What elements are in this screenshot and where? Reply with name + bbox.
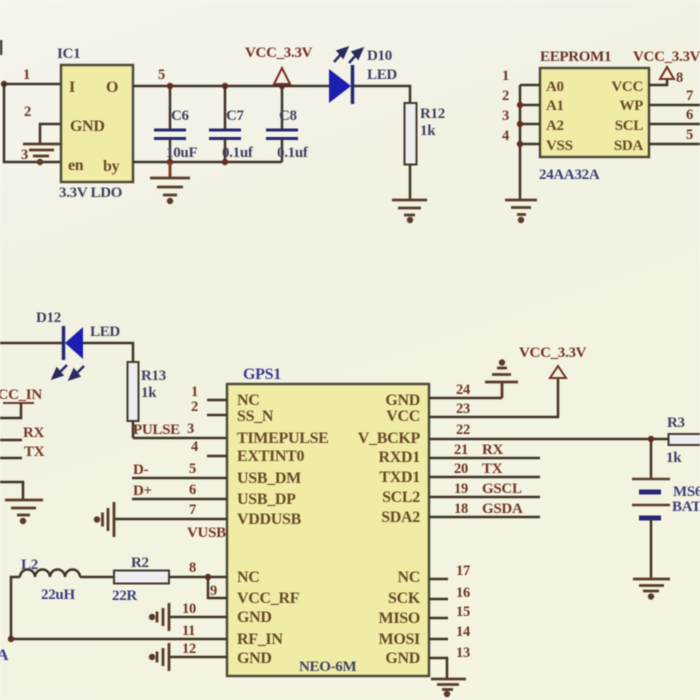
ground below eeprom <box>505 200 537 222</box>
svg-text:USB_DP: USB_DP <box>237 491 296 508</box>
wire gps pin7 <box>114 518 227 521</box>
wire gps pin9 loop <box>208 577 227 598</box>
svg-text:MISO: MISO <box>379 610 420 627</box>
svg-text:GND: GND <box>385 392 420 409</box>
svg-text:10uF: 10uF <box>166 145 197 161</box>
svg-text:13: 13 <box>456 645 470 661</box>
svg-text:C8: C8 <box>279 108 297 124</box>
wire LED to R12 <box>354 86 410 103</box>
ground pin13 <box>431 679 466 696</box>
svg-text:en: en <box>68 157 84 174</box>
wire LED D12 to R13 <box>83 343 133 362</box>
wire gps pin19 <box>429 496 540 499</box>
svg-text:R3: R3 <box>667 415 685 431</box>
wire gps pin6 <box>132 498 227 501</box>
eeprom U box <box>540 68 649 157</box>
svg-text:GSCL: GSCL <box>482 481 522 497</box>
wire gps pin1 <box>207 399 227 402</box>
svg-text:6: 6 <box>189 482 196 498</box>
svg-text:IC1: IC1 <box>57 46 80 62</box>
svg-text:GND: GND <box>237 650 272 667</box>
wire gps pin11 RF_IN <box>11 638 227 641</box>
GPS module GPS1 <box>227 366 429 676</box>
svg-text:SCK: SCK <box>388 590 421 607</box>
svg-text:15: 15 <box>456 604 470 620</box>
ground below R12 <box>392 200 427 222</box>
wire eeprom pin8 VCC <box>649 79 667 85</box>
svg-text:LED: LED <box>90 324 120 340</box>
svg-text:C6: C6 <box>171 108 190 124</box>
wire pin1 to IC1 <box>3 83 61 86</box>
wire gps pin18 <box>429 516 540 519</box>
svg-text:A1: A1 <box>546 98 564 114</box>
svg-text:21: 21 <box>454 442 468 458</box>
svg-text:24AA32A: 24AA32A <box>539 167 600 183</box>
svg-text:NEO-6M: NEO-6M <box>299 659 357 675</box>
svg-text:1: 1 <box>502 68 509 84</box>
svg-text:R13: R13 <box>141 368 166 384</box>
svg-text:D10: D10 <box>367 48 392 64</box>
svg-text:GND: GND <box>237 609 272 626</box>
svg-text:V_BCKP: V_BCKP <box>358 430 421 447</box>
svg-text:0.1uf: 0.1uf <box>277 145 309 161</box>
svg-text:SDA2: SDA2 <box>381 509 420 526</box>
wire eeprom left bus <box>519 85 522 200</box>
svg-text:TXD1: TXD1 <box>379 469 420 486</box>
svg-text:1k: 1k <box>141 385 157 401</box>
svg-text:10: 10 <box>182 601 196 617</box>
svg-text:6: 6 <box>686 107 693 123</box>
svg-text:C7: C7 <box>226 108 245 124</box>
capacitor C7 <box>209 86 254 162</box>
svg-text:SCL: SCL <box>615 118 644 134</box>
svg-text:GND: GND <box>70 118 105 135</box>
svg-text:1k: 1k <box>420 123 436 139</box>
capacitor C6 <box>154 86 197 162</box>
svg-text:23: 23 <box>456 401 470 417</box>
svg-text:0.1uf: 0.1uf <box>222 145 254 161</box>
wire gps pin15 <box>429 617 448 620</box>
svg-text:MS62: MS62 <box>673 484 700 500</box>
svg-text:1k: 1k <box>666 450 682 466</box>
ground sideways pin7 <box>95 502 114 537</box>
wire gps pin22 V_BCKP <box>429 438 669 441</box>
svg-text:USB_DM: USB_DM <box>237 470 301 487</box>
LED D12 arrows <box>53 365 84 379</box>
svg-text:RXD1: RXD1 <box>379 449 421 466</box>
resistor R12 <box>405 103 445 165</box>
svg-text:D+: D+ <box>133 483 152 499</box>
node C6 top <box>167 83 173 89</box>
svg-text:BAT1: BAT1 <box>672 499 700 515</box>
wire to left ground <box>0 482 23 500</box>
wire gps pin13 GND <box>429 658 447 679</box>
wire gps pin20 <box>429 476 540 479</box>
wire gps pin17 <box>429 578 448 581</box>
svg-text:TIMEPULSE: TIMEPULSE <box>237 430 329 447</box>
wire gps pin21 <box>429 457 540 460</box>
svg-text:2: 2 <box>191 399 198 415</box>
capacitor C8 <box>266 86 309 162</box>
node C6 bottom <box>167 159 173 165</box>
svg-text:4: 4 <box>191 439 198 455</box>
svg-text:R12: R12 <box>420 106 445 122</box>
svg-text:RX: RX <box>482 442 504 458</box>
svg-text:VCC_3.3V: VCC_3.3V <box>519 345 587 361</box>
svg-text:5: 5 <box>158 67 165 83</box>
ground inverted pin24 <box>485 361 518 398</box>
wire gps pin10 <box>169 616 227 619</box>
svg-text:3: 3 <box>502 108 509 124</box>
svg-text:3: 3 <box>187 421 194 437</box>
svg-text:VCC: VCC <box>386 408 420 425</box>
svg-text:14: 14 <box>456 624 470 640</box>
svg-text:D12: D12 <box>36 310 61 326</box>
svg-text:17: 17 <box>456 563 470 579</box>
svg-text:VSS: VSS <box>546 138 573 154</box>
svg-text:EXTINT0: EXTINT0 <box>237 448 305 465</box>
svg-text:GND: GND <box>385 650 420 667</box>
svg-text:12: 12 <box>182 641 196 657</box>
svg-text:3: 3 <box>21 147 28 163</box>
svg-text:NC: NC <box>397 569 420 586</box>
wire eeprom pin6 SCL <box>649 123 700 126</box>
power VCC_3.3V gps <box>519 345 587 378</box>
svg-text:WP: WP <box>619 98 643 114</box>
svg-text:18: 18 <box>454 501 468 517</box>
svg-text:EEPROM1: EEPROM1 <box>540 49 611 65</box>
svg-text:5: 5 <box>686 127 693 143</box>
wire eeprom pin2 <box>520 104 540 107</box>
battery BT1 <box>632 439 700 579</box>
svg-text:NC: NC <box>237 569 260 586</box>
ground sideways pin10 <box>150 603 169 631</box>
wire gps pin4 <box>207 455 227 458</box>
svg-text:A: A <box>0 647 9 664</box>
svg-text:3.3V LDO: 3.3V LDO <box>59 185 122 201</box>
svg-text:1: 1 <box>191 384 198 400</box>
wire TX stub <box>0 457 22 460</box>
wire pulse to pin3 <box>133 437 227 440</box>
wire eeprom pin4 <box>520 143 540 146</box>
svg-text:PULSE: PULSE <box>133 422 180 438</box>
regulator IC1 <box>57 46 133 201</box>
wire gps pin2 <box>207 414 227 417</box>
wire eeprom pin1 <box>520 84 540 87</box>
wire GND pin hook <box>40 124 61 144</box>
ground sideways pin12 <box>150 643 169 671</box>
svg-text:O: O <box>106 79 118 96</box>
svg-text:L2: L2 <box>21 557 38 573</box>
wire R12 to ground <box>409 165 412 201</box>
wire eeprom pin3 <box>520 123 540 126</box>
svg-text:VCC_3.3V: VCC_3.3V <box>245 45 313 61</box>
ground below battery <box>633 579 670 598</box>
svg-text:11: 11 <box>182 623 195 639</box>
wire R13 to pulse <box>132 421 135 438</box>
svg-text:GPS1: GPS1 <box>243 366 281 383</box>
svg-text:8: 8 <box>189 560 196 576</box>
svg-text:9: 9 <box>210 583 217 599</box>
svg-text:TX: TX <box>24 444 45 460</box>
svg-text:4: 4 <box>502 128 509 144</box>
wire input rail down <box>4 84 61 162</box>
wire gps pin16 <box>429 598 448 601</box>
svg-text:A2: A2 <box>546 118 564 134</box>
svg-text:7: 7 <box>189 502 196 518</box>
wire gps pin14 <box>429 638 448 641</box>
svg-text:VCC_3.3V: VCC_3.3V <box>633 49 700 65</box>
svg-text:VCC: VCC <box>611 79 643 95</box>
svg-text:VUSB: VUSB <box>187 525 226 541</box>
svg-text:VCC_RF: VCC_RF <box>237 590 300 607</box>
svg-text:19: 19 <box>454 481 468 497</box>
power VCC_IN <box>0 387 42 418</box>
svg-text:24: 24 <box>456 382 470 398</box>
node input junction <box>1 81 7 87</box>
svg-text:2: 2 <box>24 104 31 120</box>
node C7 bottom <box>222 159 228 165</box>
svg-text:22uH: 22uH <box>41 587 75 603</box>
power VCC_3.3V top <box>245 45 313 84</box>
svg-text:R2: R2 <box>131 555 149 571</box>
wire gps pin8 <box>186 576 227 579</box>
svg-text:VCC_IN: VCC_IN <box>0 387 42 403</box>
wire bottom rail by-pin <box>133 161 282 164</box>
svg-text:RF_IN: RF_IN <box>237 631 283 648</box>
ground under IC1 GND pin <box>23 144 60 164</box>
node VCC / C8 top <box>279 83 285 89</box>
svg-text:7: 7 <box>686 88 693 104</box>
stray mark left edge <box>0 40 2 55</box>
resistor R2 <box>112 555 169 604</box>
power VCC_3.3V eeprom <box>633 49 700 79</box>
svg-text:D-: D- <box>133 462 149 478</box>
LED D10 <box>329 48 397 104</box>
wire eeprom pin5 SDA <box>649 143 700 146</box>
inductor L2 <box>20 557 80 603</box>
svg-text:I: I <box>69 79 75 96</box>
resistor R13 <box>128 362 166 421</box>
ground left <box>5 500 43 523</box>
svg-text:SDA: SDA <box>614 138 644 154</box>
wire L2 to R2 <box>80 576 114 579</box>
wire gps pin12 <box>169 656 227 659</box>
LED D12 <box>0 310 120 360</box>
LED D10 arrows <box>334 48 362 63</box>
svg-text:22R: 22R <box>112 588 137 604</box>
svg-text:GSDA: GSDA <box>482 501 523 517</box>
wire IC1 output rail <box>133 85 329 88</box>
node battery junction <box>648 436 654 442</box>
svg-text:SCL2: SCL2 <box>382 489 420 506</box>
svg-text:LED: LED <box>367 67 397 83</box>
svg-text:by: by <box>103 158 120 175</box>
svg-text:RX: RX <box>23 425 45 441</box>
svg-text:22: 22 <box>456 422 470 438</box>
wire gps pin5 <box>132 477 227 480</box>
svg-text:MOSI: MOSI <box>379 631 421 648</box>
wire gps pin23 VCC <box>429 378 558 417</box>
svg-text:SS_N: SS_N <box>237 408 274 425</box>
node pin8 junction <box>205 574 211 580</box>
wire RX stub <box>0 439 22 442</box>
ground below C6 <box>150 162 190 203</box>
svg-text:VDDUSB: VDDUSB <box>237 511 302 528</box>
svg-text:2: 2 <box>502 88 509 104</box>
wire antenna riser <box>11 577 20 639</box>
svg-text:TX: TX <box>482 461 503 477</box>
wire gps pin24 <box>429 397 502 400</box>
svg-text:NC: NC <box>237 392 260 409</box>
svg-text:A0: A0 <box>546 79 564 95</box>
svg-text:1: 1 <box>23 67 30 83</box>
svg-text:5: 5 <box>189 461 196 477</box>
node antenna junction <box>8 636 14 642</box>
svg-text:8: 8 <box>676 70 683 86</box>
wire R2 to pin8 <box>169 576 186 579</box>
wire eeprom pin7 WP <box>649 104 700 107</box>
node C7 top <box>222 83 228 89</box>
resistor R3 <box>666 415 700 466</box>
svg-text:16: 16 <box>456 585 470 601</box>
svg-text:20: 20 <box>454 461 468 477</box>
